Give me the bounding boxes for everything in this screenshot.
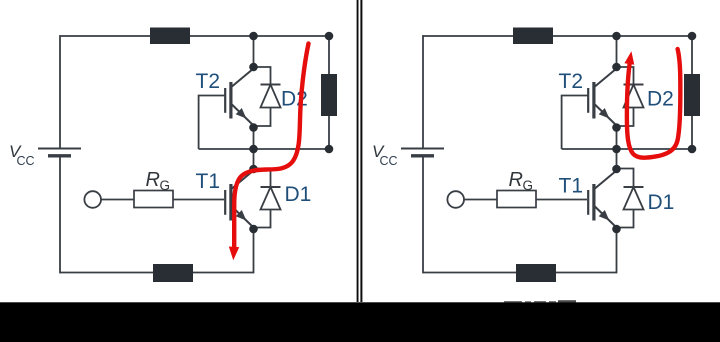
battery V_CC symbol plates (left circuit) xyxy=(38,149,81,156)
wire: left supply rail vertical (left circuit) xyxy=(59,35,61,273)
resistor: load, filled vertical rect (left circuit) xyxy=(321,74,337,116)
svg-text:R: R xyxy=(146,169,160,191)
resistor R_G box (right circuit) xyxy=(497,191,536,208)
label V_CC (right circuit) xyxy=(372,142,398,168)
svg-text:T2: T2 xyxy=(196,70,221,93)
label T1 (left circuit) xyxy=(196,170,221,193)
label D1 (right circuit) xyxy=(648,191,675,214)
resistor: load, filled vertical rect (right circuit) xyxy=(684,74,700,116)
resistor R_G box (left circuit) xyxy=(134,191,173,208)
svg-text:D1: D1 xyxy=(285,183,312,206)
resistor: top DC-link resistor, filled rect (right circuit) xyxy=(513,28,553,45)
transistor T1 IGBT symbol (left circuit) xyxy=(225,171,253,228)
diode D1 (left circuit) xyxy=(254,169,281,228)
wire: T1 emitter down to bottom rail (right circuit) xyxy=(616,229,618,273)
transistor T2 IGBT symbol (right circuit) xyxy=(588,69,616,126)
wire: source to R_G (right circuit) xyxy=(464,199,497,201)
junction node dots (right circuit) xyxy=(612,32,696,234)
wire: bottom rail right segment (right circuit) xyxy=(556,272,617,274)
wire: mid rail from gate-return to load bottom (left circuit) xyxy=(199,148,329,150)
wire: top rail left segment (right circuit) xyxy=(423,35,513,37)
wire: top rail left segment (left circuit) xyxy=(60,35,150,37)
wire: load branch verticals (left circuit) xyxy=(328,36,330,149)
resistor: bottom emitter resistor, filled rect (left circuit) xyxy=(153,264,193,282)
wire: load branch verticals (right circuit) xyxy=(691,36,693,149)
diode D2 (right circuit) xyxy=(617,67,644,126)
wire: top rail right segment (right circuit) xyxy=(553,35,692,37)
wire: left supply rail vertical (right circuit) xyxy=(422,35,424,273)
red current path arrow through T1 (left circuit) xyxy=(229,44,309,261)
vertical divider double line between the two circuits xyxy=(357,0,363,302)
red current path arrow through D2, U-shape (right circuit) xyxy=(624,49,680,158)
wire: bottom rail left segment (left circuit) xyxy=(60,272,153,274)
diode D2 (left circuit) xyxy=(254,67,281,126)
gate drive source circle (right circuit) xyxy=(447,191,464,208)
label V_CC (left circuit) xyxy=(9,142,35,168)
wire: T2 gate return loop (left circuit) xyxy=(199,96,225,150)
transistor T1 IGBT symbol (right circuit) xyxy=(588,171,616,228)
label D2 (right circuit) xyxy=(647,88,674,111)
svg-text:D1: D1 xyxy=(648,191,675,214)
wire: source to R_G (left circuit) xyxy=(101,199,134,201)
wire: T2 gate return loop (right circuit) xyxy=(562,96,588,150)
wire: bottom rail right segment (left circuit) xyxy=(193,272,254,274)
diode D1 (right circuit) xyxy=(617,169,644,228)
wire: T2 emitter node down through mid node to T1 collector node (right circuit) xyxy=(616,128,618,170)
svg-text:D2: D2 xyxy=(281,88,308,111)
resistor: top DC-link resistor, filled rect (left circuit) xyxy=(150,28,190,45)
label D1 (left circuit) xyxy=(285,183,312,206)
label T2 (right circuit) xyxy=(559,70,584,93)
svg-text:G: G xyxy=(523,178,534,193)
gate drive source circle (left circuit) xyxy=(84,191,101,208)
svg-text:T1: T1 xyxy=(559,175,584,198)
svg-text:CC: CC xyxy=(17,154,35,168)
svg-text:G: G xyxy=(160,178,171,193)
label R_G (left circuit) xyxy=(146,169,171,193)
wire: top node down to T2 collector node (right circuit) xyxy=(616,36,618,67)
wire: bottom rail left segment (right circuit) xyxy=(423,272,516,274)
transistor T2 IGBT symbol (left circuit) xyxy=(225,69,253,126)
wire: R_G to T1 gate (right circuit) xyxy=(536,199,587,201)
resistor: bottom emitter resistor, filled rect (right circuit) xyxy=(516,264,556,282)
svg-text:T1: T1 xyxy=(196,170,221,193)
label T2 (left circuit) xyxy=(196,70,221,93)
wire: top node down to T2 collector node (left circuit) xyxy=(253,36,255,67)
wire: R_G to T1 gate (left circuit) xyxy=(173,199,224,201)
junction node dots (left circuit) xyxy=(249,32,333,234)
battery V_CC symbol plates (right circuit) xyxy=(401,149,444,156)
label D2 (left circuit) xyxy=(281,88,308,111)
svg-text:R: R xyxy=(509,169,523,191)
svg-text:T2: T2 xyxy=(559,70,584,93)
partially hidden caption text tops above bottom bar xyxy=(504,300,576,302)
wire: mid rail from gate-return to load bottom (right circuit) xyxy=(562,148,692,150)
bottom black bar xyxy=(0,302,720,342)
label T1 (right circuit) xyxy=(559,175,584,198)
svg-text:CC: CC xyxy=(380,154,398,168)
svg-text:D2: D2 xyxy=(647,88,674,111)
wire: T1 emitter down to bottom rail (left circuit) xyxy=(253,229,255,273)
wire: top rail right segment (left circuit) xyxy=(190,35,329,37)
label R_G (right circuit) xyxy=(509,169,534,193)
wire: T2 emitter node down through mid node to T1 collector node (left circuit) xyxy=(253,128,255,170)
